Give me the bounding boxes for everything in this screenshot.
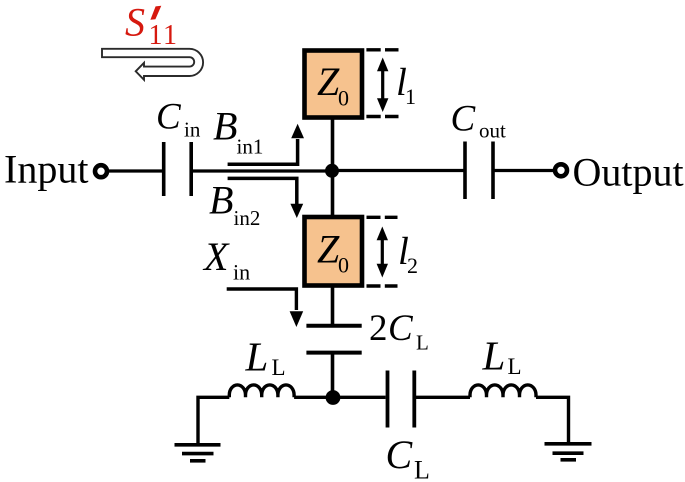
inductor L_L right [470,385,536,397]
svg-text:S: S [125,0,145,45]
wire inductor to bottom node [294,396,332,399]
svg-text:C: C [156,97,182,138]
bottom node junction dot [326,390,341,405]
inductor L_L left [229,385,294,397]
length l2 dashed extent marks [367,217,398,286]
svg-text:B: B [213,104,237,149]
wire 2C_L to bottom node [331,353,335,398]
svg-text:in: in [233,260,250,285]
wire C_out to output [495,169,554,172]
label Z0 lower [317,227,349,278]
wire node to C_out [333,169,464,172]
label L_L right [482,333,522,380]
svg-text:L: L [272,355,286,380]
capacitor 2C_L (horizontal plates) [306,326,361,353]
capacitor C_in [164,142,192,196]
svg-text:Z: Z [317,227,340,272]
svg-text:L: L [245,334,269,380]
label 2C_L [369,308,429,355]
capacitor C_out [465,142,493,200]
susceptance stub B_in1 (upper line with up arrow) [228,124,304,165]
X_in bent arrow [227,289,304,327]
svg-text:Z: Z [317,59,340,104]
label S'11 (red reflection coefficient) [125,0,178,51]
svg-text:B: B [209,178,233,223]
U-turn arrow [102,49,203,80]
label X_in [202,234,250,285]
label C_L [386,432,430,482]
svg-text:Output: Output [573,150,684,195]
svg-text:L: L [482,333,506,379]
svg-text:in: in [184,118,201,142]
svg-text:in1: in1 [237,135,264,159]
label C_in [156,97,201,142]
label Z0 upper [317,59,349,111]
svg-text:out: out [479,119,506,143]
susceptance stub B_in2 (lower line with down arrow) [228,178,304,218]
ground symbol right [545,444,592,460]
wire node up to stub Z0 l1 [331,118,335,171]
svg-text:2: 2 [369,308,388,349]
svg-text:C: C [386,432,414,477]
label B_in1 [213,104,263,159]
input terminal [95,165,107,177]
length l1 double arrow [377,58,388,113]
transmission line stub Z0 (lower), box [305,217,363,286]
svg-text:C: C [388,308,414,349]
ground symbol left [175,445,221,461]
svg-text:in2: in2 [234,206,261,230]
label L_L left [245,334,286,381]
svg-text:L: L [416,331,429,355]
svg-text:0: 0 [338,253,349,278]
node junction dot on main line [325,164,339,178]
capacitor C_L [388,371,415,428]
wire node down to stub Z0 l2 [331,171,335,216]
label l1 [396,61,416,109]
svg-text:1: 1 [405,84,416,109]
svg-text:L: L [414,456,430,482]
wire bottom node to C_L [333,396,386,399]
length l1 dashed extent marks [366,50,398,117]
transmission line stub Z0 (upper), box [305,51,363,118]
length l2 double arrow [377,227,388,278]
wire C_L to right inductor [416,396,470,399]
svg-text:2: 2 [407,253,418,278]
svg-text:0: 0 [338,86,349,111]
svg-text:11: 11 [149,20,179,51]
wire C_in to node [193,169,333,172]
label l2 [398,230,418,278]
svg-text:X: X [202,234,230,279]
wire Z0 lower to 2C_L [331,285,335,326]
svg-text:L: L [508,354,522,379]
wire input to C_in [108,169,163,172]
wire left ground to inductor [198,397,229,444]
output terminal [555,164,567,176]
label B_in2 [209,178,260,231]
svg-text:Input: Input [4,147,88,192]
label C_out [451,99,507,143]
wire right inductor to ground [536,397,569,443]
svg-text:C: C [451,99,477,140]
